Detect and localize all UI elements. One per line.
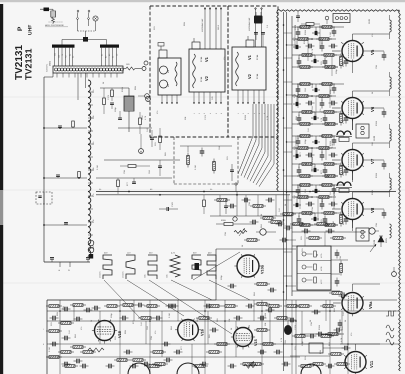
V6 screen cap	[345, 115, 347, 119]
svg-text:C173: C173	[294, 324, 297, 330]
svg-text:2.2M: 2.2M	[194, 165, 197, 170]
V8 plate wire to coil	[352, 192, 354, 199]
svg-text:4: 4	[209, 113, 212, 114]
bottom small box	[309, 343, 323, 353]
strip to rail elbow	[52, 73, 54, 77]
svg-text:C2: C2	[115, 54, 118, 56]
circle test point left of tuner	[144, 61, 148, 65]
strip long drops	[77, 73, 79, 100]
right bar pins down to strip	[101, 48, 103, 66]
svg-text:A1: A1	[69, 54, 72, 56]
V5 resistor row on bus c	[299, 54, 302, 56]
rung2 cap	[56, 174, 60, 176]
rail stubs	[284, 32, 293, 34]
svg-text:R126: R126	[311, 156, 314, 162]
waveform leader line 1	[104, 280, 140, 318]
V9a bus wire	[292, 290, 340, 292]
V7 right grid wire	[363, 159, 384, 161]
box2 top hat	[246, 40, 254, 47]
cluster cap b	[118, 117, 122, 119]
V6 resistor row on bus a	[297, 83, 300, 85]
waveform glyph 1	[103, 255, 112, 279]
paper fold line 2	[0, 189, 405, 191]
cluster cap a	[110, 102, 114, 104]
video coil right edge	[390, 224, 392, 238]
midsection vertical drops	[219, 195, 221, 216]
V6 cathode down wire	[352, 119, 354, 131]
bottom section enclosure left edge	[46, 300, 48, 374]
drop to left connector bar	[61, 40, 63, 45]
svg-text:C173: C173	[248, 324, 251, 330]
sound block element 2	[302, 265, 306, 269]
uhf balun blob	[254, 16, 263, 24]
svg-text:2.2M: 2.2M	[329, 32, 332, 37]
svg-text:L17C: L17C	[320, 279, 323, 284]
antenna uhf feed lines	[255, 8, 257, 47]
antenna jack black blob	[44, 8, 50, 12]
V6 plate wire to coil	[352, 91, 354, 98]
IF can 1102 box	[356, 124, 369, 138]
V5 cathode down wire	[352, 62, 354, 74]
svg-text:50Hz: 50Hz	[166, 274, 169, 278]
V5 resistor row on bus b	[295, 38, 298, 40]
V8 grid wire	[332, 208, 341, 210]
ladder rung 1	[44, 127, 87, 129]
V5 bus wire b	[292, 38, 336, 40]
ferrite node blob	[83, 37, 88, 42]
wire IF down	[128, 120, 130, 132]
svg-text:B3: B3	[108, 54, 111, 56]
V9a grid wire	[333, 302, 341, 304]
switch cluster below tuner	[230, 169, 234, 171]
V5 plate wire to coil	[352, 34, 354, 41]
svg-text:V5: V5	[370, 49, 375, 55]
V6 bus wire d	[292, 123, 338, 125]
B+ rail 1	[283, 12, 285, 371]
partial tube bottom 3	[301, 364, 321, 374]
V7 bus wire c	[292, 163, 341, 165]
circle test point A	[146, 97, 151, 102]
B+ rail 3	[291, 16, 293, 296]
bottom wires right	[283, 343, 309, 345]
tube V8	[342, 199, 363, 220]
bottom section enclosure top edge	[47, 299, 216, 301]
pot with arrow	[234, 231, 247, 234]
switch contact column 1	[77, 10, 79, 12]
V8 resistor row on bus c	[299, 212, 302, 214]
V8 anode coil right edge	[390, 178, 392, 190]
V7 anode coil right edge	[390, 129, 392, 141]
V8 parts below bus c	[298, 216, 300, 220]
V5 resistor row on bus a	[297, 26, 300, 28]
dashed sub-box components	[187, 153, 189, 156]
photo top edge shadow	[0, 0, 405, 2]
svg-text:V10a: V10a	[261, 264, 265, 274]
bottom bar capacitor right	[86, 257, 90, 259]
svg-text:1101: 1101	[368, 18, 371, 24]
speaker dark ellipse	[284, 325, 292, 335]
V7 bus wire b	[292, 147, 336, 149]
V5 bus wire c	[292, 54, 341, 56]
svg-text:ANTENNA VHF: ANTENNA VHF	[201, 18, 204, 32]
V7 plate wire to coil	[352, 143, 354, 150]
waveform glyph 2	[126, 255, 135, 279]
inner box V1 V2 UHF	[232, 47, 266, 90]
dashed trimmer box	[36, 192, 52, 204]
V6 resistor row on bus d	[297, 123, 300, 125]
V1V2 UHF wavy edge	[236, 52, 239, 86]
tuner terminal strip 1501 outline	[53, 66, 123, 73]
svg-text:TASTIERA: TASTIERA	[46, 63, 49, 72]
svg-text:1501: 1501	[49, 60, 52, 66]
wire bundle diagonal fan	[238, 104, 253, 174]
left film edge bar	[0, 4, 3, 190]
bottom mid components	[120, 304, 123, 306]
svg-text:R126: R126	[342, 61, 345, 67]
V8 resistor row on bus b	[295, 196, 298, 198]
svg-text:L17A: L17A	[320, 253, 323, 258]
paper fold line 3	[0, 282, 405, 284]
V7 resistor row on bus a	[297, 135, 300, 137]
V7 grid wire	[332, 159, 341, 161]
interstage connecting wires	[352, 119, 354, 131]
bottom bus wire 4	[47, 356, 300, 358]
tube V16	[178, 320, 199, 341]
V6 cathode resistor	[340, 111, 342, 114]
V7 cathode down wire	[352, 171, 354, 183]
svg-text:C173: C173	[294, 24, 297, 30]
balun hatched box	[51, 11, 56, 17]
V6 bus wire c	[292, 111, 341, 113]
IF transformer hatched coil	[124, 96, 134, 111]
V7 bus wire d	[292, 175, 338, 177]
V7 cathode resistor	[340, 163, 342, 166]
svg-text:R126: R126	[375, 120, 378, 126]
bottom junction dots	[59, 310, 61, 312]
VHF tuner inner box	[158, 58, 181, 95]
svg-text:C173: C173	[309, 210, 312, 216]
svg-text:5: 5	[258, 113, 261, 114]
sound block element 3	[302, 278, 306, 282]
svg-text:15625Hz: 15625Hz	[99, 271, 102, 278]
svg-text:3: 3	[247, 113, 250, 114]
svg-text:V9a: V9a	[368, 301, 373, 309]
resistor diag area	[203, 200, 206, 207]
wire row y160	[104, 159, 180, 161]
V6 parts below bus c	[298, 115, 300, 119]
svg-text:1102: 1102	[373, 135, 376, 141]
V6 right grid wire	[363, 107, 384, 109]
V15 volume pot	[244, 365, 257, 368]
svg-text:V16: V16	[200, 328, 205, 336]
V7 caps hanging from bus a	[297, 138, 299, 142]
V8 bus wire c	[292, 212, 341, 214]
V8 screen cap	[345, 216, 347, 220]
test circle B	[145, 94, 150, 99]
V5 vertical link wires	[297, 27, 299, 30]
terminal circle right of strip	[142, 67, 146, 71]
wire jack down	[52, 9, 54, 11]
V7 bus wire a	[292, 135, 344, 137]
bottom band vertical link wires	[73, 305, 75, 321]
svg-text:2: 2	[198, 113, 201, 114]
svg-text:240: 240	[57, 55, 60, 58]
cap near V10a	[224, 205, 228, 207]
bottom right components	[254, 303, 257, 305]
V10a top components	[260, 217, 263, 219]
cap C183 horizontal	[166, 207, 168, 211]
V5 screen cap	[345, 58, 347, 62]
B+ rail 2	[286, 12, 288, 300]
box1 feed lines from top	[204, 8, 206, 49]
tube V7	[342, 150, 363, 171]
waveform leader line 3	[149, 280, 232, 334]
svg-text:R126: R126	[244, 114, 247, 120]
dashed sub-enclosure below tuner	[174, 183, 238, 185]
bottom right section top wire	[216, 299, 397, 301]
svg-text:B5: B5	[150, 188, 152, 191]
svg-text:R126: R126	[304, 29, 307, 35]
V6 caps hanging from bus a	[297, 86, 299, 90]
wire left rail of ladder	[43, 77, 45, 262]
ladder end terminal circles	[88, 240, 94, 246]
svg-text:4: 4	[253, 113, 256, 114]
tube V18	[95, 321, 115, 341]
waveform glyph 6	[207, 255, 216, 279]
V8 bus wire d	[292, 224, 338, 226]
test circle M	[139, 149, 144, 154]
tube pin stubs right column	[362, 54, 364, 55]
svg-text:C173: C173	[107, 94, 110, 100]
V10a top wires	[210, 215, 292, 217]
ladder rung 2	[44, 177, 87, 179]
midsection extra components	[214, 199, 217, 201]
AGC bus y232	[292, 231, 366, 233]
svg-text:PC86: PC86	[200, 56, 203, 62]
V6 bus wire b	[292, 95, 336, 97]
V5 caps between b and c	[293, 46, 296, 48]
waveform glyph right edge sine	[386, 325, 394, 345]
box1 bottom pins	[193, 92, 195, 104]
V9a block-to-grid wire	[331, 259, 348, 261]
AGC components row	[290, 223, 293, 225]
sound IF block box	[297, 246, 331, 290]
bottom bus wire 2	[47, 320, 296, 322]
V10a below components	[228, 285, 231, 287]
svg-text:V15: V15	[254, 339, 258, 346]
V7 screen cap	[345, 167, 347, 171]
cap row y168	[158, 165, 162, 167]
rung1 resistor	[72, 121, 75, 127]
transistor circle	[369, 228, 375, 234]
partial tube bottom 2	[177, 363, 199, 374]
svg-text:6: 6	[220, 113, 223, 114]
rail junction dots	[283, 24, 285, 26]
V8 bus wire a	[292, 184, 344, 186]
svg-text:EK5: EK5	[385, 238, 388, 243]
tube pin stubs bottom tubes	[115, 330, 118, 332]
waveform leader line 6	[209, 280, 250, 300]
svg-text:V1: V1	[247, 54, 252, 60]
V10a enclosure edges	[215, 249, 217, 300]
svg-text:TV2131: TV2131	[24, 48, 34, 80]
V10a components left	[224, 223, 233, 226]
AGC bus y246	[292, 245, 376, 247]
svg-text:2.2M: 2.2M	[168, 313, 171, 318]
V1V2 wavy tuning edge	[193, 54, 196, 88]
box1 top hat	[192, 42, 200, 49]
inner box V1 V2 first	[189, 49, 225, 92]
diode	[378, 236, 384, 242]
svg-text:B1: B1	[101, 54, 104, 56]
switch dashed link	[78, 30, 96, 32]
cap y184	[132, 181, 136, 183]
AGC pot arrow	[370, 244, 376, 252]
bottom left components column	[46, 305, 49, 307]
waveform leader line 5	[193, 252, 240, 280]
svg-text:V7: V7	[370, 158, 375, 164]
dashes above mod text	[49, 21, 64, 23]
svg-text:2.2M: 2.2M	[331, 143, 334, 148]
V5 bus wire a	[292, 26, 344, 28]
waveform glyph 5 with blob	[192, 255, 201, 279]
trimmer circle	[93, 16, 98, 21]
waveform leader line 4	[171, 280, 212, 300]
V6 vertical link wires	[297, 84, 299, 87]
V11 plate wire	[355, 344, 357, 350]
volume pot zigzag	[88, 348, 104, 352]
svg-text:R126: R126	[303, 38, 306, 44]
resistor zigzag right of strip	[123, 68, 126, 70]
V5 parts below bus c	[298, 58, 300, 62]
tube V15	[234, 328, 253, 347]
svg-text:300: 300	[54, 53, 57, 56]
V6 resistor row on bus b	[295, 95, 298, 97]
V8 bus wire b	[292, 196, 336, 198]
V8 vertical link wires	[297, 185, 299, 188]
tube V5	[342, 41, 363, 62]
svg-text:50Hz: 50Hz	[144, 274, 147, 278]
svg-text:5: 5	[215, 113, 218, 114]
V8 resistor row on bus a	[297, 184, 300, 186]
svg-text:C1: C1	[112, 56, 115, 58]
test circle T	[233, 217, 237, 221]
V11 grid components	[325, 333, 328, 335]
V6 resistor row on bus c	[299, 111, 302, 113]
svg-text:V11: V11	[369, 360, 374, 368]
V11 bus wire	[300, 333, 344, 335]
ladder rung 3	[44, 224, 87, 226]
bottom extra components a	[92, 307, 95, 309]
bottom vertical drops	[119, 300, 121, 374]
svg-text:V8: V8	[370, 207, 375, 213]
svg-text:MOD. POSTERIORE: MOD. POSTERIORE	[45, 24, 65, 27]
svg-text:1: 1	[237, 113, 240, 114]
svg-text:V2: V2	[247, 73, 252, 79]
V5 resistor row on bus d	[297, 66, 300, 68]
svg-text:R126: R126	[264, 312, 267, 318]
svg-text:1: 1	[193, 113, 196, 114]
sound block element 1	[302, 252, 306, 256]
svg-text:P: P	[17, 26, 24, 31]
bottom terminals a b	[59, 262, 61, 267]
strip lower pins	[56, 73, 58, 78]
V6 bus wire a	[292, 83, 344, 85]
bottom bus wire 3	[47, 343, 399, 345]
svg-text:M: M	[140, 150, 142, 153]
IF can 1103 box	[356, 228, 369, 241]
V5 bus wire d	[292, 66, 338, 68]
svg-text:2.2M: 2.2M	[332, 221, 335, 226]
interstage transformer 1 double hump	[337, 131, 351, 135]
coil tap stubs and labels	[88, 91, 93, 93]
svg-text:B2: B2	[104, 56, 107, 58]
svg-text:A2: A2	[72, 56, 75, 58]
tube V4	[160, 80, 168, 88]
cluster wire top	[100, 87, 129, 89]
V7 resistor row on bus c	[299, 163, 302, 165]
paper fold line 1	[0, 96, 405, 98]
coil ladder main winding chain	[88, 80, 91, 256]
resistor y180	[117, 180, 120, 187]
cluster resistor a	[111, 90, 114, 97]
waveform glyph 4 triangle	[170, 255, 180, 277]
svg-text:75: 75	[61, 54, 64, 56]
tube V11	[345, 352, 366, 373]
svg-text:C173: C173	[204, 114, 207, 120]
mixer resistor	[139, 118, 142, 125]
test point circle right edge	[392, 272, 397, 277]
cluster resistor b	[103, 98, 106, 105]
V7 vertical link wires	[297, 136, 299, 139]
wire row y178	[96, 177, 172, 179]
V7 parts below bus c	[298, 167, 300, 171]
ladder bottom bar	[44, 261, 90, 263]
res row y160	[128, 165, 136, 168]
chassis zigzag border right	[399, 11, 401, 372]
waveform glyph right edge square	[386, 311, 396, 316]
right column vertical link wires	[294, 25, 296, 49]
V5 anode coil right edge	[390, 20, 392, 32]
strip circle chain	[55, 68, 58, 71]
svg-text:R126: R126	[121, 86, 124, 92]
svg-text:2.2M: 2.2M	[96, 165, 99, 170]
partial tube bottom 1	[128, 363, 150, 374]
cap under tuner 1	[150, 137, 154, 139]
V3V4 box pins	[161, 95, 163, 104]
connector bar 1502 right	[100, 45, 119, 48]
drop to right connector bar	[106, 40, 108, 45]
svg-text:2.2M: 2.2M	[48, 347, 51, 352]
svg-text:15625Hz: 15625Hz	[122, 271, 125, 278]
box2 bottom pins	[237, 90, 239, 104]
svg-text:ANTENNA UHF: ANTENNA UHF	[248, 17, 251, 31]
svg-text:R126: R126	[375, 172, 378, 178]
svg-text:PC88: PC88	[256, 73, 259, 79]
rung3 capacitor	[64, 222, 68, 224]
V9a components	[329, 292, 332, 294]
svg-text:V2: V2	[204, 75, 209, 81]
tube pin stubs V11	[365, 367, 367, 368]
svg-text:R126: R126	[318, 324, 321, 330]
switch contact column 2	[88, 10, 90, 12]
bottom extra components b	[62, 365, 65, 367]
V5 cathode resistor	[340, 54, 342, 57]
V6 grid wire	[332, 107, 341, 109]
sound block dividers	[297, 260, 331, 262]
chassis zigzag border left upper	[277, 11, 279, 192]
waveform leader line 2	[127, 280, 184, 316]
